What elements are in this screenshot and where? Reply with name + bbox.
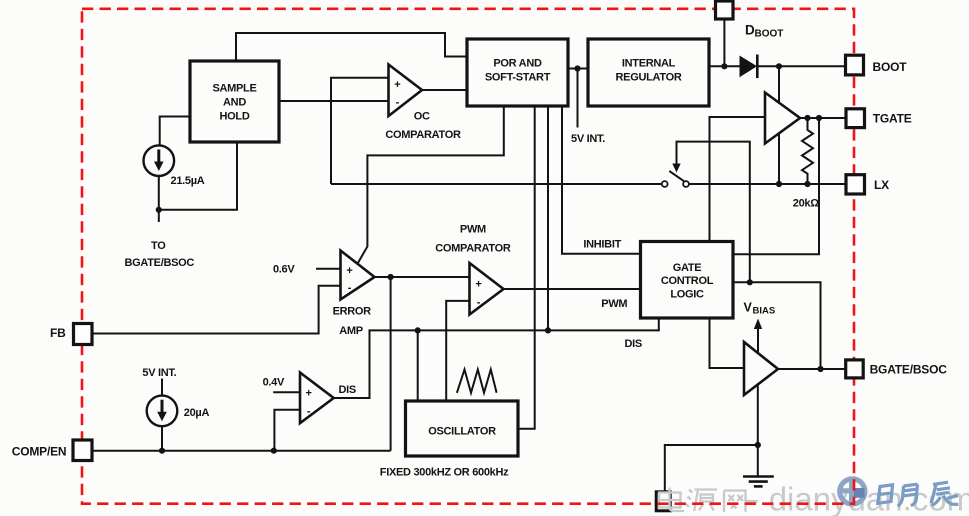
svg-text:FB: FB: [50, 326, 66, 340]
wire 0.4V reference stub: [273, 391, 300, 393]
wire oscillator DIS input: [417, 330, 419, 401]
svg-text:-: -: [396, 97, 400, 109]
buffer U2 TGATE driver: [765, 93, 800, 144]
resistor R1 20k: [802, 118, 813, 184]
svg-text:COMPARATOR: COMPARATOR: [385, 129, 461, 141]
box GATE CONTROL LOGIC: [641, 242, 734, 319]
svg-text:TGATE: TGATE: [873, 112, 912, 126]
label ERROR AMP: [333, 306, 372, 338]
op-amp U3 PWM comparator: [470, 263, 504, 315]
svg-text:5V INT.: 5V INT.: [142, 367, 176, 379]
svg-text:BIAS: BIAS: [753, 306, 776, 317]
terminal COMP/EN: [73, 440, 92, 461]
wire POR to oscillator sync: [518, 106, 535, 429]
watermark chinese dianyuanwang: [659, 488, 746, 513]
wire BOOT junction down through TGATE driver to LX line: [778, 66, 780, 184]
wire POR soft-start clamp to error amp: [358, 106, 504, 264]
node gate-drive junction: [747, 279, 753, 285]
wire COMP/EN line: [92, 450, 391, 452]
red dashed boundary: [82, 9, 854, 504]
svg-text:TO: TO: [151, 240, 166, 252]
terminal AGND bottom: [656, 492, 670, 511]
svg-text:BGATE/BSOC: BGATE/BSOC: [870, 363, 948, 377]
wire I2 bottom to COMP/EN line: [161, 426, 163, 451]
svg-text:-: -: [348, 282, 352, 294]
svg-text:+: +: [475, 279, 481, 291]
wire COMP net down to COMP/EN: [390, 277, 392, 451]
svg-text:BGATE/BSOC: BGATE/BSOC: [125, 257, 195, 269]
svg-text:DIS: DIS: [338, 384, 355, 396]
node BGATE junction: [817, 366, 823, 372]
wire I2 top stub: [161, 379, 163, 396]
svg-text:OSCILLATOR: OSCILLATOR: [428, 426, 496, 438]
label DBOOT: [745, 22, 783, 39]
terminal FB: [74, 324, 93, 345]
svg-text:AND: AND: [223, 97, 246, 109]
current source I1 21.5uA: [144, 145, 175, 176]
label PWM COMPARATOR: [435, 224, 511, 255]
node BOOT junction: [776, 63, 782, 69]
sawtooth waveform: [457, 370, 497, 393]
terminal BOOT: [846, 55, 864, 75]
svg-text:INTERNAL: INTERNAL: [622, 58, 676, 70]
svg-text:0.4V: 0.4V: [263, 377, 285, 389]
logo text ri yue chen: [878, 482, 959, 506]
svg-text:BOOT: BOOT: [873, 60, 908, 74]
svg-text:ERROR: ERROR: [333, 306, 372, 318]
diode DBOOT: [740, 55, 758, 79]
svg-text:20kΩ: 20kΩ: [793, 198, 819, 210]
terminal TGATE: [846, 109, 865, 128]
op-amp U1 error amp: [341, 251, 375, 300]
node 5V INT junction: [574, 65, 580, 71]
svg-text:+: +: [305, 387, 311, 399]
wire DIS net from comparator to gate control logic: [335, 318, 659, 398]
node ground branch junction: [755, 442, 761, 448]
wire gate control logic output to BGATE net: [733, 282, 821, 369]
wire PWM comparator inverting input to oscillator: [446, 301, 469, 401]
wire gate control logic to BGATE driver input: [710, 318, 745, 368]
svg-text:+: +: [394, 79, 400, 91]
wire TGATE drive from gate control logic: [733, 118, 819, 254]
node LX driver junction: [776, 181, 782, 187]
svg-text:-: -: [307, 406, 311, 418]
node 20uA junction: [159, 448, 165, 454]
VBIAS arrow: [754, 319, 762, 353]
logo riyuechen mark: [838, 477, 867, 506]
svg-text:0.6V: 0.6V: [273, 264, 295, 276]
box SAMPLE AND HOLD: [190, 61, 279, 142]
svg-text:GATE: GATE: [673, 262, 702, 274]
node junction below current source: [156, 207, 162, 213]
svg-text:21.5µA: 21.5µA: [171, 175, 205, 187]
svg-text:REGULATOR: REGULATOR: [616, 71, 682, 83]
wire current source bottom to junction: [159, 142, 237, 210]
svg-text:+: +: [346, 265, 352, 277]
svg-text:FIXED 300kHZ OR 600kHz: FIXED 300kHZ OR 600kHz: [380, 467, 509, 479]
node COMP junction: [388, 274, 394, 280]
label TO BGATE/BSOC: [125, 240, 195, 269]
wire switch control from gate control logic: [677, 142, 750, 283]
svg-text:PWM: PWM: [460, 224, 486, 236]
wire gate control logic top to TGATE driver input: [710, 117, 766, 242]
wire POR to DIS net: [547, 106, 549, 330]
node DIS POR junction: [545, 327, 551, 333]
current source I2 20uA: [147, 396, 178, 427]
terminal LX: [846, 175, 865, 194]
WATERMARK: [659, 481, 969, 516]
svg-text:PWM: PWM: [601, 298, 627, 310]
LOGO: [838, 477, 958, 506]
label VBIAS: [744, 301, 776, 317]
svg-text:INHIBIT: INHIBIT: [583, 238, 621, 250]
terminal BGATE/BSOC: [846, 360, 864, 378]
node DIS oscillator junction: [415, 327, 421, 333]
wire diode cathode to BOOT terminal: [757, 65, 845, 67]
svg-text:OC: OC: [414, 111, 430, 123]
svg-text:SAMPLE: SAMPLE: [212, 83, 256, 95]
node TGATE resistor junction: [804, 115, 810, 121]
wire TGATE driver output to TGATE terminal: [800, 117, 846, 119]
wire PWM output to gate control logic: [504, 288, 641, 290]
wire regulator output to diode anode: [709, 65, 740, 67]
wire BGATE driver ground leg: [757, 370, 759, 477]
wire INHIBIT from POR to gate control logic: [562, 106, 641, 254]
wire error amp output to PWM comparator: [375, 276, 470, 278]
wire 0.6V reference stub: [316, 268, 341, 270]
buffer U5 BGATE driver: [744, 342, 778, 395]
wire FB to error amp inverting input: [92, 286, 341, 334]
wire LX line from switch to LX terminal: [689, 183, 846, 185]
svg-text:BOOT: BOOT: [755, 28, 784, 39]
svg-text:20µA: 20µA: [184, 407, 210, 419]
wire POR to INTERNAL REGULATOR with 5V INT stub: [568, 69, 588, 128]
label OC COMPARATOR: [385, 111, 461, 141]
op-amp OC comparator: [389, 65, 423, 117]
box POR AND SOFT-START: [467, 39, 568, 106]
svg-text:LOGIC: LOGIC: [670, 288, 704, 300]
wire stub below junction to TO BGATE/BSOC: [158, 210, 160, 222]
watermark latin dianyuan.com: [747, 500, 758, 503]
switch S1 circles: [662, 181, 689, 187]
svg-text:COMP/EN: COMP/EN: [12, 444, 67, 458]
wire DIS comparator inverting input from COMP/EN: [274, 410, 300, 451]
wire ground branch to AGND terminal: [665, 445, 758, 492]
svg-text:5V INT.: 5V INT.: [571, 133, 605, 145]
wire sample-hold output to OC comparator inverting input: [279, 100, 389, 102]
svg-text:D: D: [745, 22, 755, 37]
svg-text:-: -: [477, 297, 481, 309]
svg-text:COMPARATOR: COMPARATOR: [435, 242, 511, 254]
wire BGATE driver output to BGATE/BSOC terminal: [778, 368, 846, 370]
wire OC comparator output to POR: [422, 89, 467, 91]
TERMINALS: [73, 1, 865, 461]
svg-text:LX: LX: [874, 178, 889, 192]
svg-text:POR AND: POR AND: [493, 58, 542, 70]
box INTERNAL REGULATOR: [588, 39, 709, 106]
svg-text:AMP: AMP: [339, 325, 363, 337]
svg-text:HOLD: HOLD: [220, 111, 250, 123]
node regulator output junction: [721, 63, 727, 69]
wire top route from SAMPLE AND HOLD to POR input: [236, 33, 467, 61]
box OSCILLATOR: [406, 401, 519, 456]
svg-text:SOFT-START: SOFT-START: [485, 71, 551, 83]
switch control arrowhead: [672, 164, 680, 173]
terminal VIN top: [716, 1, 734, 19]
node TGATE feedback junction: [816, 115, 822, 121]
wire LX line from OC sense to switch: [331, 183, 662, 185]
wire sample-hold left stub to current source: [160, 117, 190, 147]
svg-text:V: V: [744, 301, 753, 315]
node DIS comparator junction: [271, 448, 277, 454]
wire OC comparator + input from LX sense line: [331, 78, 389, 184]
op-amp U4 DIS comparator: [300, 373, 334, 424]
switch S1 lever: [669, 171, 684, 181]
ground: [743, 477, 774, 487]
wire up to VIN terminal: [723, 19, 725, 66]
node LX resistor junction: [804, 181, 810, 187]
svg-text:DIS: DIS: [624, 338, 641, 350]
svg-text:CONTROL: CONTROL: [661, 275, 714, 287]
